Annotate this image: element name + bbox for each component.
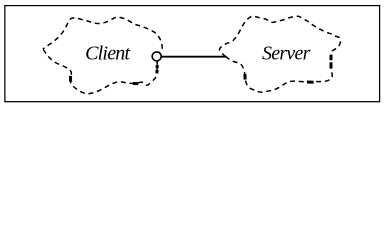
svg-text:Server: Server [262, 42, 311, 64]
svg-text:Client: Client [85, 42, 130, 64]
